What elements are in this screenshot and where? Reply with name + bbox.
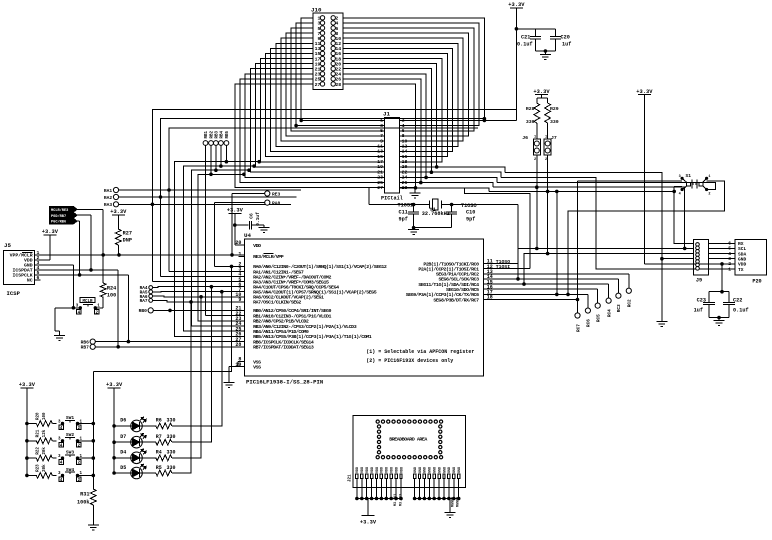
svg-text:RB0: RB0 bbox=[139, 308, 148, 314]
wire breadboard pin GND 8 bbox=[448, 479, 450, 499]
svg-text:9: 9 bbox=[318, 36, 321, 42]
U4 pin 1 (RE3) bbox=[239, 255, 245, 257]
svg-text:330: 330 bbox=[550, 119, 559, 125]
wire MCLR net bbox=[41, 254, 245, 256]
ground R31 bbox=[88, 524, 99, 526]
svg-text:(2) = PIC16F193X devices only: (2) = PIC16F193X devices only bbox=[366, 358, 453, 364]
capacitor C22 bbox=[723, 302, 735, 304]
U4 pin 21 (RB0) bbox=[239, 309, 245, 311]
svg-text:VDD: VDD bbox=[366, 467, 370, 473]
svg-text:RB3/AN9/C12IN2-/CPS3/CCP2(1)/P: RB3/AN9/C12IN2-/CPS3/CCP2(1)/P2A(1)/VLCD… bbox=[253, 324, 357, 330]
node RA2 test point bbox=[113, 194, 118, 199]
svg-text:VSS: VSS bbox=[253, 364, 261, 370]
svg-text:330: 330 bbox=[167, 418, 176, 424]
svg-text:RX: RX bbox=[738, 241, 744, 247]
wire tag MCLR bbox=[77, 208, 103, 210]
breadboard hole bottom 10 bbox=[424, 456, 427, 459]
svg-text:VDD: VDD bbox=[400, 467, 404, 473]
U4 pin 19 (VSS) bbox=[239, 366, 245, 368]
svg-text:P2A(1)/CCP2(1)/T1OSI/RC1: P2A(1)/CCP2(1)/T1OSI/RC1 bbox=[418, 267, 479, 273]
svg-text:+3.3V: +3.3V bbox=[360, 520, 377, 526]
svg-text:PIC16LF1938-I/SS_28-PIN: PIC16LF1938-I/SS_28-PIN bbox=[246, 379, 323, 386]
J10 pin circles row 6 bbox=[320, 41, 324, 45]
net tag PGC/RB6 bbox=[50, 218, 77, 223]
svg-text:RC7: RC7 bbox=[576, 324, 581, 332]
ground MCLR bbox=[54, 335, 65, 337]
svg-text:19: 19 bbox=[315, 61, 321, 67]
wire J10 pin 4 to J1 pin 4 bbox=[343, 23, 479, 126]
svg-text:20k: 20k bbox=[42, 447, 47, 455]
wire MCLR sw right bbox=[95, 307, 103, 309]
node RA7 test point bbox=[149, 299, 153, 303]
wire J10 pin 16 to J1 pin 16 bbox=[343, 53, 447, 156]
breadboard header pin GND 8 bbox=[448, 474, 450, 479]
svg-text:9: 9 bbox=[380, 138, 383, 144]
wire J10 pin 24 to J1 pin 24 bbox=[343, 74, 426, 178]
U4 pin 27 (RB6) bbox=[239, 341, 245, 343]
svg-text:D4: D4 bbox=[120, 450, 126, 456]
wire breadboard pin VDD 8 bbox=[390, 479, 392, 499]
svg-text:RA7/OSC1/CLKIN/SEG2: RA7/OSC1/CLKIN/SEG2 bbox=[253, 300, 301, 306]
breadboard hole right 3 bbox=[439, 435, 442, 438]
svg-text:C20: C20 bbox=[561, 34, 570, 40]
breadboard hole right 2 bbox=[439, 430, 442, 433]
wire tag PGD bbox=[77, 214, 91, 216]
wire RA3 bbox=[119, 203, 292, 205]
svg-text:R28: R28 bbox=[526, 106, 535, 112]
svg-text:2: 2 bbox=[728, 261, 731, 267]
node RC3 test point bbox=[616, 293, 621, 298]
J10 pin circles row 1 bbox=[320, 16, 324, 20]
node RA5 test point bbox=[149, 290, 153, 294]
U4 pin 8 (VSS) bbox=[239, 361, 245, 363]
wire LED D5 to RA bbox=[172, 302, 191, 473]
wire J10 pin 9 to J1 pin 9 bbox=[281, 38, 385, 141]
breadboard header pin GND 7 bbox=[443, 474, 445, 479]
ic P20 body bbox=[735, 239, 767, 275]
ic U4 body bbox=[245, 239, 484, 376]
breadboard header pin GND 6 bbox=[438, 474, 440, 479]
wire crystal gnd rail bbox=[414, 227, 452, 229]
svg-text:R31: R31 bbox=[80, 491, 89, 497]
breadboard hole top 1 bbox=[376, 420, 379, 423]
svg-text:RB3: RB3 bbox=[215, 130, 219, 138]
breadboard hole bottom 11 bbox=[429, 456, 432, 459]
svg-text:MGND2: MGND2 bbox=[457, 497, 461, 507]
wire RB4 bbox=[220, 145, 222, 166]
J10 pin circles row 14 bbox=[320, 82, 324, 86]
svg-text:RC2: RC2 bbox=[628, 299, 633, 307]
wire breadboard pin VDD 5 bbox=[376, 479, 378, 499]
breadboard hole right 6 bbox=[439, 451, 442, 454]
wire J10 pin 25 to J1 pin 25 bbox=[240, 79, 385, 183]
breadboard header pin GND 3 bbox=[423, 474, 425, 479]
node RC7 test point bbox=[575, 313, 580, 318]
svg-text:RA7: RA7 bbox=[140, 299, 148, 304]
svg-text:GND: GND bbox=[424, 467, 428, 473]
wire U4 RC4 bbox=[484, 283, 609, 285]
LED D5 bbox=[113, 472, 116, 475]
wire J9 to P20 TX bbox=[708, 268, 735, 270]
svg-text:17: 17 bbox=[377, 159, 383, 165]
U4 pin 7 (RA5) bbox=[239, 291, 245, 293]
J9 pin 3 bbox=[696, 249, 700, 253]
node RB0 bbox=[148, 308, 153, 313]
breadboard header pin VDD 7 bbox=[385, 474, 387, 479]
svg-text:RB6: RB6 bbox=[81, 339, 90, 345]
wire RA7 bbox=[153, 300, 245, 302]
wire J9 to P20 SCL bbox=[708, 247, 735, 249]
node RC6 test point bbox=[585, 308, 590, 313]
wire J10 pin 17 to J1 pin 17 bbox=[260, 59, 384, 162]
breadboard header pin GND 4 bbox=[428, 474, 430, 479]
svg-text:RA5/AN4/C2OUT(1)/CPS7/SRNQ(1)/: RA5/AN4/C2OUT(1)/CPS7/SRNQ(1)/SS1(1)/VCA… bbox=[253, 290, 377, 296]
svg-text:RE3: RE3 bbox=[272, 192, 281, 198]
wire breadboard pin VDD 3 bbox=[366, 479, 368, 499]
wire LED D4 to RA bbox=[172, 297, 201, 458]
svg-text:32.768kHz: 32.768kHz bbox=[422, 211, 450, 217]
svg-text:RB7/ICSPDAT/ICDDAT/SEG13: RB7/ICSPDAT/ICDDAT/SEG13 bbox=[253, 345, 314, 351]
svg-text:9pf: 9pf bbox=[466, 217, 475, 223]
svg-text:RA0: RA0 bbox=[272, 201, 281, 207]
node RC4 test point bbox=[606, 298, 611, 303]
breadboard hole top 8 bbox=[413, 420, 416, 423]
svg-text:VDD: VDD bbox=[371, 467, 375, 473]
J10 pin circles row 4 bbox=[320, 31, 324, 35]
svg-text:RB5/AN13/CPS5/P3B(1)/CCP3(1)/P: RB5/AN13/CPS5/P3B(1)/CCP3(1)/P3A(1)/T1G(… bbox=[253, 334, 372, 340]
node RB7 bbox=[90, 344, 95, 349]
ground below J1 bbox=[414, 188, 416, 193]
wire TX net bbox=[501, 177, 735, 269]
svg-text:1: 1 bbox=[545, 136, 547, 140]
wire J9 to P20 GND bbox=[708, 258, 735, 260]
wire net to S1 right bbox=[497, 182, 716, 189]
svg-text:PGC/RB6: PGC/RB6 bbox=[51, 220, 66, 225]
svg-text:14: 14 bbox=[402, 149, 408, 155]
svg-text:C11: C11 bbox=[399, 210, 408, 216]
wire breadboard vdd bus bbox=[357, 498, 401, 500]
connector J9 body bbox=[693, 239, 708, 275]
wire J10 pin 22 to J1 pin 22 bbox=[343, 69, 431, 173]
svg-text:27: 27 bbox=[377, 185, 383, 191]
resistor R7 bbox=[142, 441, 156, 443]
svg-text:R4: R4 bbox=[156, 450, 162, 456]
svg-text:11: 11 bbox=[377, 144, 383, 150]
resistor R6 bbox=[142, 425, 156, 427]
svg-text:RE3/MCLR/VPP: RE3/MCLR/VPP bbox=[253, 254, 284, 260]
svg-text:330: 330 bbox=[526, 119, 535, 125]
svg-text:RC3: RC3 bbox=[617, 304, 622, 312]
overline MCLR J5 bbox=[22, 252, 32, 254]
connector J10 body bbox=[313, 13, 343, 90]
wire SCL upper bbox=[493, 187, 685, 248]
svg-text:GND: GND bbox=[434, 467, 438, 473]
J10 pin circles row 5 bbox=[320, 36, 324, 40]
svg-text:SEG11/T1G(1)/SDA/SDI/RC4: SEG11/T1G(1)/SDA/SDI/RC4 bbox=[418, 282, 479, 288]
wire breadboard pin VDD 1 bbox=[356, 479, 358, 499]
resistor R21 bbox=[26, 440, 29, 443]
wire J10 pin 21 to J1 pin 21 bbox=[250, 69, 384, 173]
svg-text:D7: D7 bbox=[120, 434, 126, 440]
LED D6 bbox=[113, 425, 116, 428]
svg-text:C23: C23 bbox=[697, 298, 706, 304]
wire RX drop bbox=[674, 187, 693, 244]
node RA4 test point bbox=[149, 286, 153, 290]
wire J5 GND bbox=[41, 264, 74, 266]
svg-text:+3.3V: +3.3V bbox=[42, 229, 59, 235]
svg-text:12k: 12k bbox=[42, 429, 47, 437]
svg-text:1: 1 bbox=[534, 136, 536, 140]
svg-text:RA1: RA1 bbox=[104, 188, 113, 194]
wire RA3 down bbox=[151, 204, 153, 281]
svg-text:C10: C10 bbox=[466, 210, 475, 216]
breadboard hole top 12 bbox=[434, 420, 437, 423]
svg-text:SDA: SDA bbox=[738, 251, 747, 257]
svg-text:GND: GND bbox=[414, 467, 418, 473]
wire SDA bbox=[524, 254, 693, 285]
breadboard hole bottom 3 bbox=[387, 456, 390, 459]
svg-text:VSS: VSS bbox=[253, 359, 261, 365]
svg-text:+3.3V: +3.3V bbox=[19, 382, 36, 388]
breadboard hole left 3 bbox=[377, 435, 380, 438]
svg-text:TX: TX bbox=[738, 267, 744, 273]
wire J10 pin 1 to J1 pin 1 bbox=[301, 18, 385, 121]
breadboard header pin GND 10 bbox=[458, 474, 460, 479]
node RC2 test point bbox=[626, 288, 631, 293]
wire RA2 top bbox=[161, 119, 485, 197]
wire RB5 bbox=[225, 145, 227, 161]
J9 pin 6 bbox=[696, 260, 700, 264]
svg-text:5: 5 bbox=[380, 128, 383, 134]
svg-text:MCLR: MCLR bbox=[82, 300, 93, 304]
switch MCLR bbox=[79, 307, 81, 309]
wire J10 pin 15 to J1 pin 15 bbox=[266, 53, 385, 156]
svg-text:SEG10/SDO/RC5: SEG10/SDO/RC5 bbox=[446, 287, 479, 293]
breadboard header pin VDD 10 bbox=[400, 474, 402, 479]
wire SW2 out bbox=[78, 440, 94, 442]
wire U4 RC7 bbox=[484, 299, 578, 301]
svg-text:RC6: RC6 bbox=[587, 319, 592, 327]
svg-text:RC4: RC4 bbox=[607, 309, 612, 317]
wire breadboard pin VDD 7 bbox=[385, 479, 387, 499]
svg-text:P2B(1)/T1OSO/T1CKI/RC0: P2B(1)/T1OSO/T1CKI/RC0 bbox=[423, 261, 479, 267]
breadboard header pin VDD 6 bbox=[380, 474, 382, 479]
wire U4 RC6 bbox=[484, 293, 588, 295]
wire sw common bbox=[92, 372, 94, 489]
svg-text:GND: GND bbox=[443, 467, 447, 473]
wire RB2 bbox=[210, 145, 212, 174]
power +3.3V breadboard bbox=[362, 515, 375, 517]
svg-text:GND: GND bbox=[458, 467, 462, 473]
svg-text:RB4/AN11/CPS4/P1D/COM0: RB4/AN11/CPS4/P1D/COM0 bbox=[253, 329, 309, 335]
breadboard hole left 5 bbox=[377, 446, 380, 449]
J9 pin 8 bbox=[696, 267, 700, 271]
svg-text:VDD: VDD bbox=[253, 243, 261, 249]
svg-text:RA2/AN2/C2IN+/VREF-/DACOUT/COM: RA2/AN2/C2IN+/VREF-/DACOUT/COM2 bbox=[253, 274, 331, 280]
svg-text:GND: GND bbox=[429, 467, 433, 473]
svg-text:VDD: VDD bbox=[381, 467, 385, 473]
svg-text:28: 28 bbox=[335, 82, 341, 88]
wire breadboard pin GND 3 bbox=[423, 479, 425, 499]
svg-text:27: 27 bbox=[315, 82, 321, 88]
svg-text:330: 330 bbox=[167, 465, 176, 471]
breadboard hole bottom 8 bbox=[413, 456, 416, 459]
svg-text:25: 25 bbox=[377, 180, 383, 186]
svg-text:+3.3V: +3.3V bbox=[106, 382, 123, 388]
breadboard hole left 1 bbox=[377, 425, 380, 428]
node RA6 test point bbox=[149, 294, 153, 298]
wire +3.3V to J1 pin2 bbox=[400, 119, 517, 121]
wire J10 pin 3 to J1 pin 3 bbox=[296, 23, 385, 126]
J10 pin circles row 8 bbox=[320, 51, 324, 55]
LED D4 bbox=[113, 457, 116, 460]
wire J1 net jog y177 bbox=[400, 177, 497, 182]
breadboard hole bottom 6 bbox=[403, 456, 406, 459]
svg-text:1: 1 bbox=[708, 175, 710, 179]
capacitor C11 bbox=[413, 205, 415, 212]
J10 pin circles row 12 bbox=[320, 72, 324, 76]
wire breadboard pin VDD 2 bbox=[361, 479, 363, 499]
svg-text:RB5: RB5 bbox=[226, 130, 230, 138]
svg-text:U4: U4 bbox=[244, 232, 251, 239]
U4 pin 3 (RA1) bbox=[239, 271, 245, 273]
wire RA2 bbox=[119, 196, 297, 198]
wire J6 down bbox=[536, 155, 538, 249]
wire T1OSO net bbox=[449, 204, 518, 206]
svg-text:R23: R23 bbox=[37, 464, 41, 472]
svg-text:GND: GND bbox=[438, 467, 442, 473]
wire T1OSI net bbox=[369, 204, 430, 206]
breadboard hole top 6 bbox=[403, 420, 406, 423]
wire J10 pin 20 to J1 pin 20 bbox=[343, 64, 437, 167]
wire breadboard pin GND 10 bbox=[458, 479, 460, 499]
wire cap gnd rail bbox=[536, 50, 556, 52]
svg-text:20k: 20k bbox=[42, 464, 47, 472]
ground crystal bbox=[413, 228, 415, 230]
wire J9 to P20 SDA bbox=[708, 253, 735, 255]
wire RA5 bbox=[153, 291, 245, 293]
breadboard hole right 5 bbox=[439, 446, 442, 449]
wire breadboard pin GND 4 bbox=[428, 479, 430, 499]
wire J10 pin 28 to J1 pin 28 bbox=[343, 84, 416, 188]
svg-text:8: 8 bbox=[402, 133, 405, 139]
breadboard hole top 13 bbox=[439, 420, 442, 423]
svg-text:1uf: 1uf bbox=[694, 308, 703, 314]
svg-text:0.1uf: 0.1uf bbox=[517, 41, 533, 47]
wire VSS bbox=[238, 361, 245, 363]
breadboard hole bottom 2 bbox=[381, 456, 384, 459]
svg-text:330: 330 bbox=[167, 434, 176, 440]
svg-text:C22: C22 bbox=[733, 298, 742, 304]
wire RA0 bbox=[214, 202, 264, 204]
breadboard header pin VDD 5 bbox=[375, 474, 377, 479]
svg-text:16: 16 bbox=[402, 154, 408, 160]
svg-text:RA0/AN0/C12IN0-/C2OUT(1)/SRNQ(: RA0/AN0/C12IN0-/C2OUT(1)/SRNQ(1)/SS1(1)/… bbox=[253, 264, 387, 270]
net tag PGD/RB7 bbox=[50, 213, 77, 218]
wire RB3 bbox=[215, 145, 217, 170]
wire J10 pin 2 to J1 pin 2 bbox=[343, 18, 484, 121]
breadboard hole bottom 7 bbox=[408, 456, 411, 459]
breadboard header pin GND 9 bbox=[453, 474, 455, 479]
wire breadboard pin GND 5 bbox=[433, 479, 435, 499]
breadboard hole top 2 bbox=[381, 420, 384, 423]
svg-text:C6: C6 bbox=[249, 213, 255, 219]
wire RA2 down bbox=[160, 197, 162, 277]
ground C6 bbox=[263, 225, 265, 227]
capacitor C10 bbox=[451, 205, 453, 212]
J10 pin circles row 10 bbox=[320, 61, 324, 65]
J9 pin 1 bbox=[696, 243, 700, 247]
svg-text:J5: J5 bbox=[4, 242, 11, 249]
svg-text:26: 26 bbox=[335, 77, 341, 83]
wire T1OSI to pin12 bbox=[484, 268, 530, 270]
breadboard header pin VDD 1 bbox=[356, 474, 358, 479]
J9 pin 7 bbox=[696, 263, 700, 267]
svg-text:20: 20 bbox=[335, 61, 341, 67]
svg-text:2: 2 bbox=[708, 192, 710, 196]
svg-text:+3.3V: +3.3V bbox=[533, 89, 550, 95]
svg-text:VDD: VDD bbox=[376, 467, 380, 473]
wire VDD pin20 bbox=[235, 244, 245, 246]
svg-text:17: 17 bbox=[315, 56, 321, 62]
wire tag PGC bbox=[77, 220, 80, 222]
U4 pin 4 (RA2) bbox=[239, 276, 245, 278]
overline MCLR U4 bbox=[264, 252, 274, 254]
resistor R27 bbox=[115, 229, 121, 245]
svg-text:+3.3V: +3.3V bbox=[636, 89, 653, 95]
resistor R24 bbox=[102, 255, 104, 283]
J9 pin 5 bbox=[696, 256, 700, 260]
wire breadboard pin GND 2 bbox=[419, 479, 421, 499]
wire RA3 top bbox=[152, 109, 516, 204]
resistor R22 bbox=[26, 457, 29, 460]
wire SW common top bbox=[93, 266, 231, 371]
svg-text:R6: R6 bbox=[156, 418, 162, 424]
svg-text:330: 330 bbox=[167, 450, 176, 456]
wire J10 pin 23 to J1 pin 23 bbox=[245, 74, 384, 178]
wire J10 pin 18 to J1 pin 18 bbox=[343, 59, 442, 162]
svg-text:9pf: 9pf bbox=[399, 217, 408, 223]
U4 pin 23 (RB2) bbox=[239, 320, 245, 322]
J10 pin circles row 2 bbox=[320, 21, 324, 25]
wire breadboard pin GND 7 bbox=[443, 479, 445, 499]
resistor R29 bbox=[545, 103, 551, 123]
svg-text:7: 7 bbox=[380, 133, 383, 139]
U4 pin 26 (RB5) bbox=[239, 335, 245, 337]
wire ICSPDAT bbox=[41, 269, 119, 271]
svg-text:J1: J1 bbox=[383, 111, 390, 118]
svg-text:10: 10 bbox=[335, 36, 341, 42]
node RB6 bbox=[90, 339, 95, 344]
svg-text:RA2: RA2 bbox=[104, 195, 113, 201]
wire breadboard pin VDD 6 bbox=[380, 479, 382, 499]
svg-text:D6: D6 bbox=[120, 418, 126, 424]
ground J9 GND bbox=[656, 321, 667, 323]
svg-text:VDD: VDD bbox=[738, 262, 747, 268]
U4 pin 20 (VDD) bbox=[239, 244, 245, 246]
svg-text:+3.3V: +3.3V bbox=[227, 208, 244, 214]
resistor R31 bbox=[90, 489, 96, 505]
ground breadboard bbox=[445, 512, 456, 514]
svg-text:R22: R22 bbox=[37, 447, 41, 455]
wire J10 pin 5 to J1 pin 5 bbox=[291, 28, 385, 131]
wire J9 to P20 RX bbox=[708, 242, 735, 244]
svg-text:25: 25 bbox=[315, 77, 321, 83]
LED D7 bbox=[113, 441, 116, 444]
svg-text:VDD: VDD bbox=[361, 467, 365, 473]
wire breadboard pin VDD 10 bbox=[400, 479, 402, 499]
breadboard hole bottom 13 bbox=[439, 456, 442, 459]
